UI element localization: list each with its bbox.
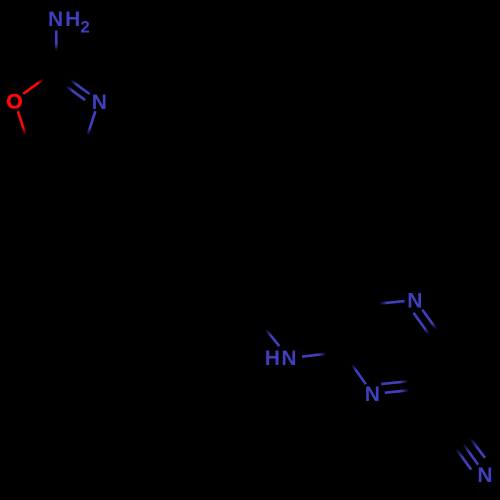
bond N7-C7a xyxy=(302,352,343,357)
double bond Nbot=C2r main line xyxy=(385,389,424,393)
bond N3-C4 xyxy=(83,111,96,150)
bond Ntop-C4a xyxy=(364,301,404,305)
triple bond Cn#Nn main line xyxy=(455,432,479,465)
triple bond Cn#Nn right line xyxy=(461,427,485,458)
svg-text:N: N xyxy=(407,290,422,313)
double bond Ntop=C3r inner line xyxy=(414,313,433,339)
double bond C2=N3 main line xyxy=(57,70,90,94)
double bond Ntop=C3r main line xyxy=(422,310,445,342)
svg-text:HN: HN xyxy=(265,347,298,370)
svg-text:O: O xyxy=(6,91,22,114)
bond Nbot-C7a2 xyxy=(343,352,366,384)
svg-text:N: N xyxy=(477,464,492,487)
svg-text:N: N xyxy=(365,383,380,406)
bond N7-C6 chain xyxy=(256,318,279,346)
bond O1-C2 xyxy=(23,70,56,94)
bond O1-C5 xyxy=(18,111,31,150)
bond NH2-C2 xyxy=(55,31,58,70)
triple bond Cn#Nn left line xyxy=(449,439,471,470)
double bond C2=N3 inner line xyxy=(65,85,85,100)
svg-text:N: N xyxy=(92,91,107,114)
double bond Nbot=C2r inner line xyxy=(381,381,413,384)
